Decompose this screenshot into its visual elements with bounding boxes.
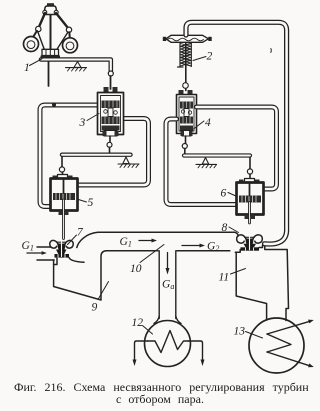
svg-text:G1: G1 [120, 236, 132, 249]
svg-text:5: 5 [88, 197, 94, 209]
caption line 1 [14, 380, 309, 395]
link into valve 3 [110, 76, 112, 89]
svg-text:Gа: Gа [162, 279, 174, 292]
pilot valve 3 [98, 87, 124, 136]
label 8 leader [229, 227, 239, 233]
ball left [24, 37, 39, 52]
servomotor 5 [51, 175, 78, 239]
spindle [50, 6, 52, 50]
svg-text:9: 9 [92, 302, 98, 314]
LP turbine 11 [235, 245, 288, 320]
pin joint right [66, 27, 71, 32]
joint on valve-3 link [108, 71, 113, 76]
fulcrum of governor lever [66, 62, 87, 71]
Ga down arrow [166, 253, 170, 275]
svg-text:13: 13 [234, 326, 246, 338]
valve3 bottom stem [109, 136, 111, 143]
feedback lever valve4-servo6 [184, 153, 250, 157]
svg-text:G2: G2 [207, 241, 219, 254]
crossover steam pipe [77, 232, 239, 247]
servomotor 6 [237, 179, 264, 224]
heater 12 [133, 321, 205, 367]
pipe valve3-right to servo5 upper-right port [78, 119, 149, 186]
ball right [63, 38, 78, 53]
label 3 leader [87, 114, 99, 121]
spindle lower rod [48, 58, 50, 86]
pipe valve3-left to servo5 lower-left port [40, 105, 98, 207]
G2 flow arrow [182, 244, 205, 248]
svg-text:7: 7 [77, 227, 84, 239]
steam valve 8 [237, 233, 263, 251]
lower link left [38, 31, 45, 50]
diaphragm regulator 2 [163, 35, 212, 90]
upper arm right [56, 13, 69, 29]
upper arm left [38, 13, 45, 29]
valve4 bottom stem [185, 136, 187, 144]
arm to left ball [33, 31, 37, 38]
caption line 2 [116, 392, 204, 407]
svg-text:11: 11 [219, 272, 230, 284]
steam valve 7 [50, 238, 73, 258]
G1 inlet arrow [27, 251, 47, 255]
label 1 [30, 59, 43, 66]
arm to right ball [68, 32, 71, 39]
flyball governor 1 [24, 3, 78, 86]
G1 inlet pipe [37, 246, 51, 248]
fulcrum of lever 4-6 [196, 158, 217, 168]
label 4 leader [194, 121, 205, 129]
HP turbine 9 [54, 251, 107, 300]
svg-text:10: 10 [130, 263, 142, 275]
svg-text:3: 3 [79, 117, 86, 129]
svg-text:12: 12 [132, 317, 144, 329]
pin joint left [36, 26, 41, 31]
top hub [47, 3, 54, 6]
svg-text:G1: G1 [22, 240, 34, 253]
label 7 leader [68, 235, 77, 245]
link lever to servo5 rod [61, 157, 63, 168]
collar sleeve [42, 49, 59, 55]
svg-text:2: 2 [207, 51, 213, 63]
junction blob on pipe [52, 103, 56, 107]
label 5 leader [79, 200, 87, 203]
svg-text:1: 1 [24, 62, 30, 74]
lever from governor to pilot valve 3 [41, 60, 111, 72]
pilot valve 4 [177, 90, 197, 136]
label 6 leader [228, 193, 237, 197]
small scan mark [270, 49, 273, 53]
pipe valve4-left to servo6 left port [166, 119, 237, 205]
condenser 13 [246, 318, 314, 373]
extraction branch pipe (Ga) [158, 251, 160, 319]
impulse pipe: extraction header to diaphragm 2 [186, 22, 287, 244]
lower link right [57, 32, 69, 50]
link lever to servo6 rod [249, 158, 251, 170]
G1 flow arrow in crossover [139, 239, 157, 243]
fulcrum of lever 3-5 [118, 157, 139, 168]
svg-text:8: 8 [222, 222, 228, 234]
feedback lever valve3-servo5 [62, 152, 131, 156]
label 11 leader [231, 269, 246, 275]
label 9 leader [98, 282, 109, 300]
svg-text:4: 4 [205, 117, 211, 129]
pipe valve4-right to servo6 right port [197, 107, 277, 189]
label 10 leader [140, 245, 164, 263]
svg-text:6: 6 [221, 188, 227, 200]
